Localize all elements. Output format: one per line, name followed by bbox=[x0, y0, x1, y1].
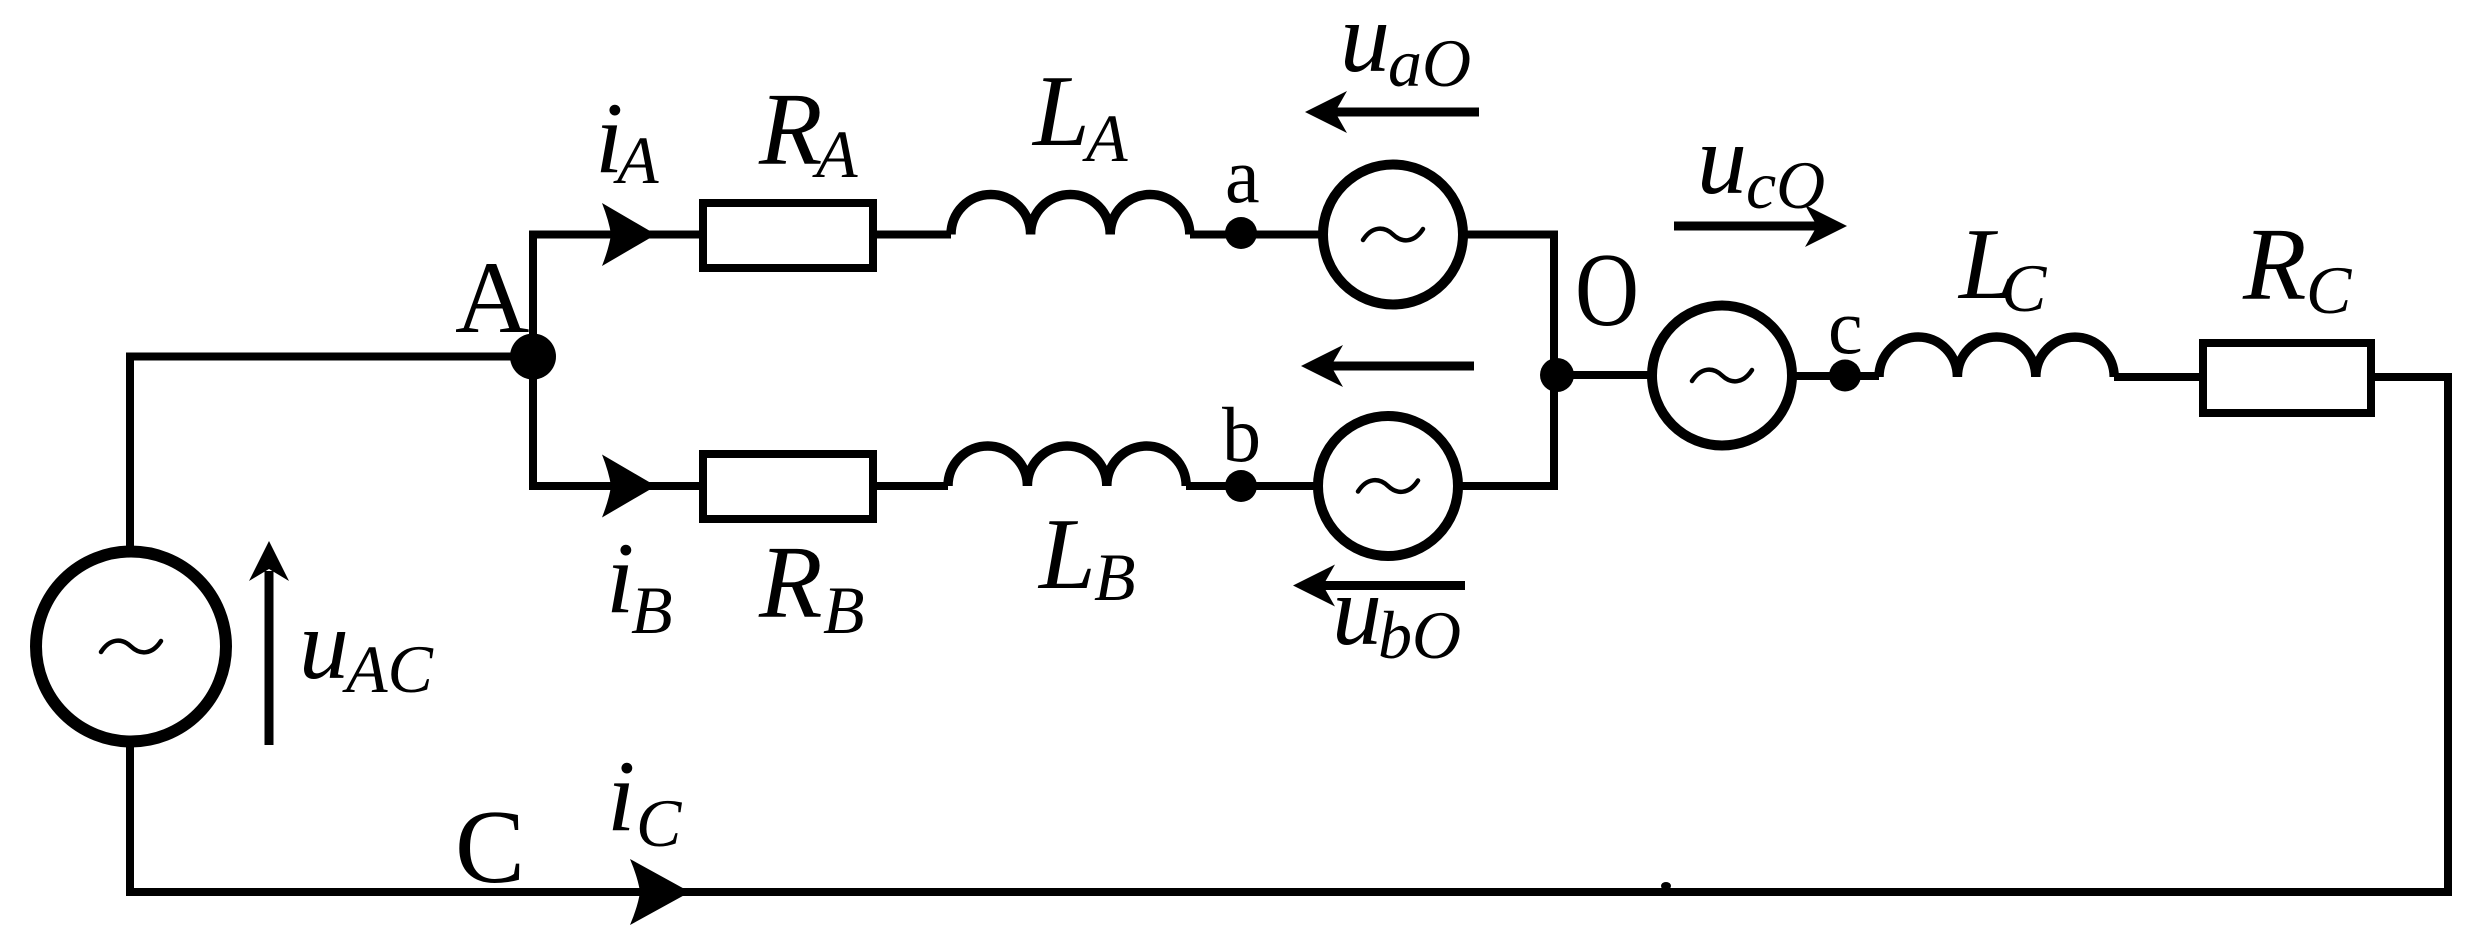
svg-text:B: B bbox=[823, 572, 865, 648]
svg-text:u: u bbox=[299, 589, 349, 700]
svg-text:C: C bbox=[636, 785, 682, 861]
svg-text:R: R bbox=[2242, 207, 2307, 322]
svg-text:A: A bbox=[1082, 100, 1128, 176]
svg-text:bO: bO bbox=[1378, 597, 1461, 673]
svg-text:B: B bbox=[1094, 539, 1136, 615]
svg-text:u: u bbox=[1697, 104, 1747, 215]
svg-text:b: b bbox=[1222, 391, 1261, 478]
svg-text:L: L bbox=[1037, 498, 1096, 611]
svg-text:C: C bbox=[2001, 250, 2047, 326]
svg-text:A: A bbox=[455, 241, 529, 355]
svg-text:A: A bbox=[812, 116, 858, 192]
svg-text:O: O bbox=[1575, 231, 1639, 348]
svg-text:c: c bbox=[1828, 283, 1863, 370]
svg-text:u: u bbox=[1332, 555, 1382, 666]
svg-text:R: R bbox=[758, 72, 823, 187]
svg-text:C: C bbox=[455, 788, 525, 905]
svg-text:C: C bbox=[2306, 252, 2352, 328]
svg-text:A: A bbox=[613, 122, 659, 198]
svg-text:u: u bbox=[1340, 0, 1390, 93]
svg-text:cO: cO bbox=[1746, 147, 1825, 223]
svg-text:AC: AC bbox=[342, 631, 434, 707]
svg-text:L: L bbox=[1031, 55, 1090, 168]
svg-text:B: B bbox=[631, 572, 673, 648]
svg-text:aO: aO bbox=[1388, 25, 1471, 101]
svg-text:a: a bbox=[1225, 132, 1260, 219]
svg-text:i: i bbox=[607, 740, 635, 853]
svg-text:R: R bbox=[758, 525, 823, 640]
